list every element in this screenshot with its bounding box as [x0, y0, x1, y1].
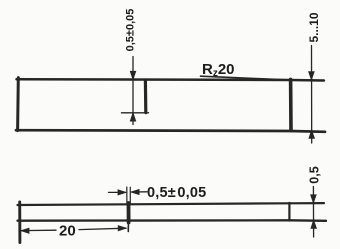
top view: step depth extension line — [122, 112, 149, 114]
scribe mark extension line right — [129, 187, 131, 204]
dimension line 20: right segment — [79, 228, 126, 229]
scribe mark tail below bar — [127, 223, 129, 232]
top view: bar top edge with extension to right — [17, 79, 325, 80]
top view: bar left end edge — [16, 78, 20, 131]
bottom view: bar right end edge — [288, 203, 290, 221]
scribe mark extension line left — [126, 187, 128, 205]
arrowhead down at top edge — [130, 71, 136, 80]
bottom view: bar top edge with extension to right — [18, 203, 325, 205]
top view: bar right end edge — [289, 79, 293, 130]
bottom view: bar bottom edge with extension to right — [18, 219, 327, 222]
dimension 0,5±0,05 right arrow line — [132, 191, 147, 193]
svg-text:5...10: 5...10 — [307, 12, 321, 42]
arrowhead left at right scribe line — [131, 189, 140, 194]
dimension 0,5±0,05 left arrow line — [109, 191, 126, 193]
svg-text:Rz20: Rz20 — [202, 61, 235, 79]
svg-text:20: 20 — [59, 223, 76, 240]
top view: bar bottom edge with extension to right — [16, 130, 325, 132]
dimension line for 0,5±0,05 (step depth) — [132, 57, 134, 125]
arrowhead up at bottom bar bottom edge — [311, 220, 317, 229]
bottom view: bar left end edge extended down — [18, 202, 21, 243]
top view: scribe cut edge (step) — [144, 80, 148, 113]
dimension line 20: left segment — [21, 229, 56, 231]
arrowhead up at bottom edge (right) — [309, 130, 315, 139]
arrowhead right at scribe mark — [118, 226, 127, 231]
arrowhead down at top edge (right) — [309, 72, 315, 81]
scribe mark through bar — [127, 203, 131, 223]
dimension line for 5...10 (bar thickness) — [311, 46, 313, 144]
arrowhead down at bottom bar top edge — [311, 195, 317, 204]
svg-text:0,5± 0,05: 0,5± 0,05 — [147, 185, 206, 201]
dimension line for 0,5 (bottom bar thickness) — [312, 187, 314, 238]
arrowhead right at left scribe line — [118, 190, 127, 195]
svg-text:0,5±0,05: 0,5±0,05 — [125, 9, 137, 52]
svg-text:0,5: 0,5 — [308, 166, 322, 183]
arrowhead left at bar left edge — [21, 228, 30, 233]
Rz20 underline shelf — [201, 76, 287, 80]
arrowhead up at step bottom — [130, 113, 136, 122]
